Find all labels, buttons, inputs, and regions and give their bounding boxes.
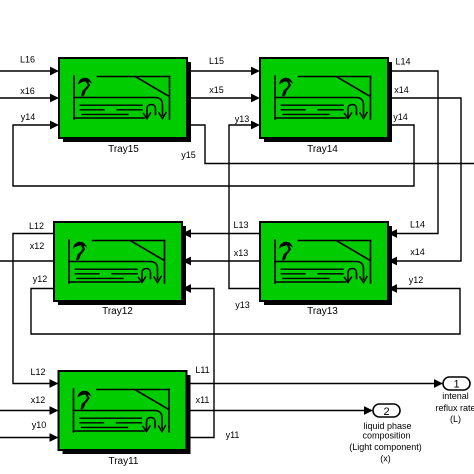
- wire x11 out: [187, 410, 364, 412]
- svg-text:intenal: intenal: [442, 391, 469, 401]
- arrowhead y14 into Tray15: [50, 121, 59, 130]
- wire x15: [187, 97, 251, 99]
- wire L16 input: [0, 70, 50, 72]
- svg-text:Tray15: Tray15: [108, 144, 139, 155]
- svg-text:y10: y10: [32, 420, 47, 430]
- subsystem block Tray15: [59, 58, 191, 142]
- svg-text:x11: x11: [196, 395, 210, 405]
- arrowhead L11 into port 1: [434, 379, 443, 388]
- wire x13: [191, 260, 260, 262]
- arrowhead L12 into Tray11: [50, 379, 59, 388]
- svg-text:composition: composition: [362, 431, 410, 441]
- svg-text:Tray12: Tray12: [102, 306, 133, 317]
- svg-text:L14: L14: [395, 57, 410, 67]
- wire x16 input: [0, 97, 50, 99]
- subsystem block Tray14: [260, 58, 392, 142]
- svg-text:reflux rate: reflux rate: [435, 403, 474, 413]
- svg-text:x14: x14: [410, 247, 425, 257]
- wire y13 net (Tray13 out to Tray14 in): [229, 125, 260, 289]
- arrowhead x11 into port 2: [364, 406, 373, 415]
- svg-text:x13: x13: [234, 248, 249, 258]
- output port 1: [443, 377, 470, 390]
- arrowhead L14 into Tray13: [388, 229, 397, 238]
- svg-text:y13: y13: [235, 300, 250, 310]
- wire L12 net (Tray12 out to Tray11 in): [13, 234, 54, 384]
- svg-text:L13: L13: [233, 220, 248, 230]
- svg-text:(Light component): (Light component): [349, 442, 422, 452]
- svg-text:y12: y12: [33, 274, 48, 284]
- svg-text:x12: x12: [30, 241, 45, 251]
- wire x14 net (Tray14 out to Tray13 in): [388, 98, 461, 261]
- subsystem block Tray12 (mirrored): [54, 222, 186, 305]
- svg-text:1: 1: [453, 379, 459, 391]
- svg-text:L12: L12: [29, 221, 44, 231]
- arrowhead y11 into Tray12: [182, 284, 191, 293]
- svg-text:x15: x15: [209, 85, 224, 95]
- arrowhead y10 into Tray11: [50, 433, 59, 442]
- wire L13: [191, 233, 260, 235]
- svg-text:y15: y15: [181, 150, 196, 160]
- wire y12 net (Tray12 out to Tray13 in): [31, 289, 460, 335]
- wire L11 out: [187, 383, 434, 385]
- svg-text:x12: x12: [31, 395, 46, 405]
- wire x12 out: [0, 260, 54, 262]
- output port 2: [373, 404, 400, 417]
- wire y10 input: [0, 437, 50, 439]
- wire y11 net (Tray11 out to Tray12 in): [187, 289, 214, 438]
- svg-text:(x): (x): [380, 454, 391, 464]
- svg-text:Tray14: Tray14: [307, 144, 338, 155]
- arrowhead L16: [50, 67, 59, 76]
- wire L15: [187, 70, 251, 72]
- svg-text:L16: L16: [20, 55, 35, 65]
- svg-text:y14: y14: [393, 112, 408, 122]
- wire y15 out: [187, 125, 474, 164]
- arrowhead y12 into Tray13: [388, 284, 397, 293]
- svg-text:L11: L11: [195, 365, 209, 375]
- arrowhead y13 into Tray14: [251, 121, 260, 130]
- subsystem block Tray13 (mirrored): [260, 222, 392, 305]
- subsystem block Tray11: [59, 371, 191, 454]
- svg-text:y12: y12: [409, 275, 424, 285]
- arrowhead x13 into Tray12: [182, 257, 191, 266]
- svg-text:Tray13: Tray13: [307, 306, 338, 317]
- wire L14 net (Tray14 out to Tray13 in): [388, 71, 438, 234]
- svg-text:x16: x16: [20, 86, 35, 96]
- svg-text:liquid phase: liquid phase: [363, 421, 411, 431]
- svg-text:L14: L14: [410, 220, 425, 230]
- svg-text:2: 2: [383, 406, 389, 418]
- wire y14 net (Tray14 out to Tray15 in): [13, 125, 414, 186]
- arrowhead L15: [251, 67, 260, 76]
- svg-text:y13: y13: [235, 114, 250, 124]
- svg-text:x14: x14: [394, 85, 409, 95]
- arrowhead x15: [251, 94, 260, 103]
- svg-text:(L): (L): [450, 414, 461, 424]
- svg-text:L12: L12: [30, 367, 45, 377]
- svg-text:Tray11: Tray11: [108, 456, 138, 467]
- arrowhead x14 into Tray13: [388, 257, 397, 266]
- svg-text:y14: y14: [21, 112, 36, 122]
- svg-text:L15: L15: [209, 56, 224, 66]
- arrowhead L13 into Tray12: [182, 229, 191, 238]
- svg-text:y11: y11: [226, 430, 240, 440]
- arrowhead x16: [50, 94, 59, 103]
- wire x12 input: [0, 410, 50, 412]
- arrowhead x12 into Tray11: [50, 406, 59, 415]
